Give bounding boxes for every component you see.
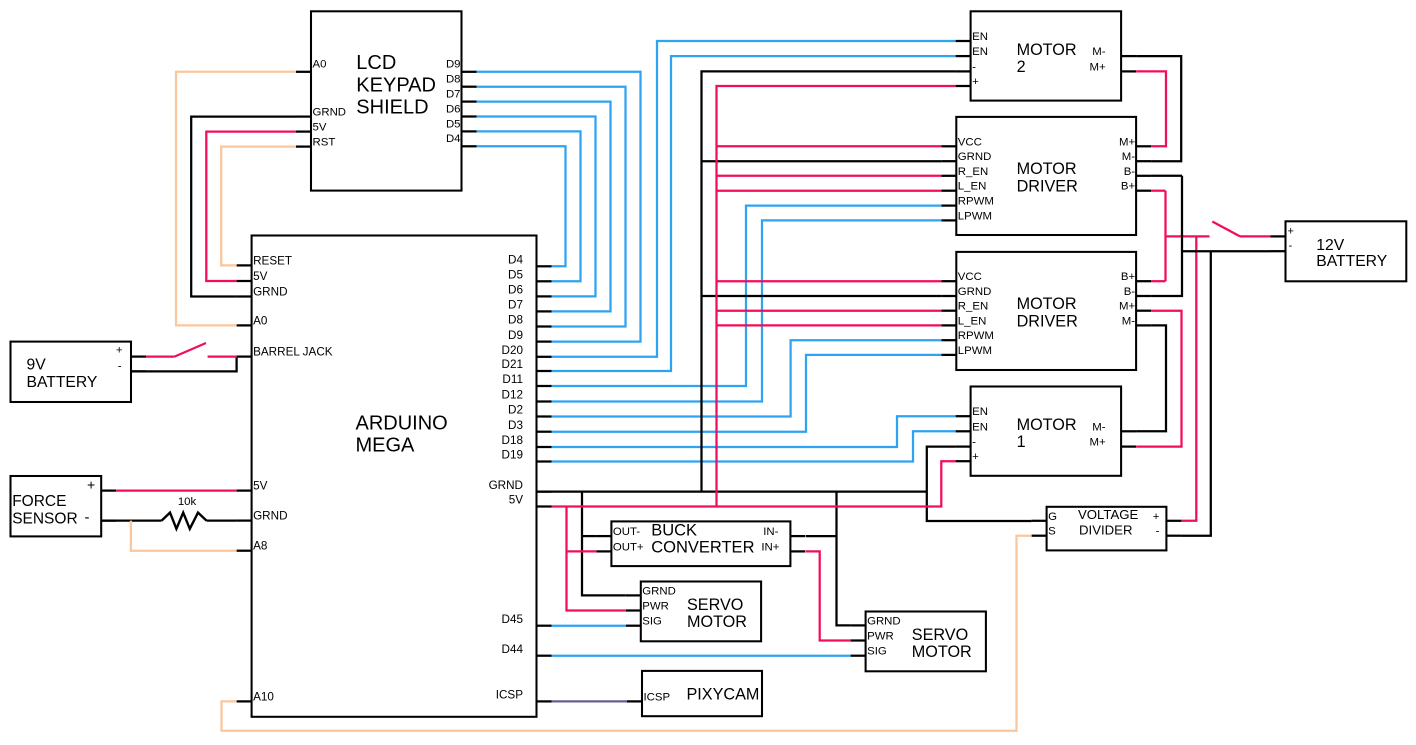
svg-text:GRND: GRND bbox=[958, 286, 992, 298]
svg-text:BUCK: BUCK bbox=[651, 522, 697, 540]
svg-text:+: + bbox=[972, 451, 979, 463]
svg-text:S: S bbox=[1048, 526, 1056, 538]
svg-text:L_EN: L_EN bbox=[958, 181, 987, 193]
svg-text:D9: D9 bbox=[508, 329, 523, 342]
svg-text:GRND: GRND bbox=[867, 615, 901, 627]
svg-text:M+: M+ bbox=[1119, 301, 1135, 313]
svg-text:+: + bbox=[116, 345, 123, 357]
svg-text:D4: D4 bbox=[446, 133, 461, 145]
svg-text:+: + bbox=[972, 76, 979, 88]
svg-text:B+: B+ bbox=[1121, 181, 1136, 193]
svg-text:MOTOR: MOTOR bbox=[1017, 160, 1077, 178]
svg-text:PWR: PWR bbox=[642, 601, 669, 613]
svg-text:-: - bbox=[972, 61, 976, 73]
svg-text:A8: A8 bbox=[253, 540, 267, 553]
svg-text:EN: EN bbox=[972, 31, 988, 43]
svg-text:9V: 9V bbox=[27, 356, 47, 373]
svg-text:D4: D4 bbox=[508, 254, 523, 267]
svg-text:RPWM: RPWM bbox=[958, 330, 994, 342]
svg-text:M-: M- bbox=[1122, 151, 1135, 163]
svg-text:IN+: IN+ bbox=[761, 541, 779, 553]
svg-text:MOTOR: MOTOR bbox=[912, 643, 972, 661]
svg-text:-: - bbox=[118, 361, 122, 373]
svg-text:DRIVER: DRIVER bbox=[1017, 178, 1078, 196]
svg-text:B-: B- bbox=[1124, 286, 1136, 298]
svg-text:D20: D20 bbox=[502, 344, 524, 357]
svg-text:M+: M+ bbox=[1119, 136, 1135, 148]
svg-text:M-: M- bbox=[1092, 46, 1105, 58]
svg-text:SHIELD: SHIELD bbox=[356, 97, 428, 119]
svg-text:PWR: PWR bbox=[867, 631, 894, 643]
svg-text:5V: 5V bbox=[253, 480, 268, 493]
svg-text:KEYPAD: KEYPAD bbox=[356, 74, 436, 96]
svg-text:A10: A10 bbox=[253, 690, 274, 703]
svg-text:SERVO: SERVO bbox=[687, 596, 743, 614]
svg-text:LPWM: LPWM bbox=[958, 345, 992, 357]
svg-text:DIVIDER: DIVIDER bbox=[1079, 523, 1133, 538]
svg-text:D44: D44 bbox=[502, 643, 524, 656]
svg-text:MEGA: MEGA bbox=[356, 434, 416, 456]
svg-text:D11: D11 bbox=[502, 373, 523, 386]
svg-text:D8: D8 bbox=[508, 314, 523, 327]
svg-text:CONVERTER: CONVERTER bbox=[651, 539, 754, 557]
svg-text:R_EN: R_EN bbox=[958, 166, 988, 178]
svg-text:-: - bbox=[1156, 526, 1160, 538]
svg-text:RPWM: RPWM bbox=[958, 196, 994, 208]
svg-text:D2: D2 bbox=[508, 404, 523, 417]
svg-text:5V: 5V bbox=[509, 494, 524, 507]
svg-text:RST: RST bbox=[313, 137, 336, 149]
svg-text:M+: M+ bbox=[1089, 61, 1105, 73]
svg-text:D5: D5 bbox=[446, 118, 461, 130]
svg-text:MOTOR: MOTOR bbox=[687, 613, 747, 631]
svg-text:EN: EN bbox=[972, 406, 988, 418]
svg-text:D8: D8 bbox=[446, 74, 461, 86]
svg-text:A0: A0 bbox=[253, 314, 268, 327]
svg-text:VCC: VCC bbox=[958, 136, 982, 148]
svg-text:D7: D7 bbox=[446, 89, 461, 101]
svg-text:10k: 10k bbox=[178, 496, 197, 508]
svg-text:GRND: GRND bbox=[958, 151, 992, 163]
svg-text:GRND: GRND bbox=[253, 510, 287, 523]
svg-text:D45: D45 bbox=[502, 613, 524, 626]
svg-text:PIXYCAM: PIXYCAM bbox=[687, 685, 760, 703]
svg-text:R_EN: R_EN bbox=[958, 301, 988, 313]
svg-text:D6: D6 bbox=[508, 284, 523, 297]
svg-text:M+: M+ bbox=[1089, 437, 1105, 449]
svg-text:MOTOR: MOTOR bbox=[1017, 416, 1077, 434]
svg-text:EN: EN bbox=[972, 421, 988, 433]
svg-text:-: - bbox=[85, 509, 90, 526]
svg-text:+: + bbox=[1153, 511, 1160, 523]
svg-text:GRND: GRND bbox=[313, 107, 347, 119]
svg-text:BATTERY: BATTERY bbox=[27, 374, 98, 391]
svg-text:OUT-: OUT- bbox=[613, 526, 640, 538]
svg-text:D6: D6 bbox=[446, 103, 461, 115]
svg-text:MOTOR: MOTOR bbox=[1017, 41, 1077, 59]
svg-text:+: + bbox=[87, 476, 95, 492]
svg-text:ICSP: ICSP bbox=[496, 689, 523, 702]
svg-text:VCC: VCC bbox=[958, 271, 982, 283]
svg-text:+: + bbox=[1288, 225, 1294, 237]
svg-text:DRIVER: DRIVER bbox=[1017, 313, 1078, 331]
svg-text:D3: D3 bbox=[508, 419, 523, 432]
svg-text:BARREL JACK: BARREL JACK bbox=[253, 346, 333, 359]
svg-text:BATTERY: BATTERY bbox=[1316, 253, 1387, 270]
svg-text:RESET: RESET bbox=[253, 254, 292, 267]
svg-text:G: G bbox=[1048, 511, 1057, 523]
svg-text:LPWM: LPWM bbox=[958, 210, 992, 222]
svg-text:M-: M- bbox=[1092, 421, 1105, 433]
svg-text:2: 2 bbox=[1017, 58, 1026, 76]
svg-text:B+: B+ bbox=[1121, 271, 1136, 283]
svg-text:D18: D18 bbox=[502, 434, 523, 447]
svg-text:MOTOR: MOTOR bbox=[1017, 295, 1077, 313]
svg-text:D7: D7 bbox=[508, 299, 523, 312]
svg-text:5V: 5V bbox=[313, 122, 327, 134]
svg-text:FORCE: FORCE bbox=[12, 493, 66, 510]
svg-text:1: 1 bbox=[1017, 433, 1026, 451]
svg-text:GRND: GRND bbox=[642, 585, 676, 597]
svg-text:D12: D12 bbox=[502, 389, 523, 402]
svg-text:D21: D21 bbox=[502, 358, 523, 371]
svg-text:-: - bbox=[972, 437, 976, 449]
svg-text:D9: D9 bbox=[446, 59, 461, 71]
svg-text:EN: EN bbox=[972, 46, 988, 58]
svg-text:A0: A0 bbox=[313, 58, 327, 70]
svg-text:12V: 12V bbox=[1316, 237, 1344, 254]
svg-text:M-: M- bbox=[1122, 315, 1135, 327]
svg-text:D19: D19 bbox=[502, 449, 523, 462]
svg-text:D5: D5 bbox=[508, 269, 523, 282]
svg-text:B-: B- bbox=[1124, 166, 1136, 178]
svg-text:SIG: SIG bbox=[642, 616, 662, 628]
svg-text:IN-: IN- bbox=[763, 526, 778, 538]
svg-text:SIG: SIG bbox=[867, 646, 887, 658]
svg-text:ARDUINO: ARDUINO bbox=[356, 413, 448, 435]
svg-text:SENSOR: SENSOR bbox=[12, 511, 77, 528]
svg-text:GRND: GRND bbox=[253, 286, 287, 299]
svg-text:OUT+: OUT+ bbox=[613, 541, 644, 553]
svg-text:5V: 5V bbox=[253, 270, 268, 283]
svg-text:L_EN: L_EN bbox=[958, 315, 987, 327]
svg-text:GRND: GRND bbox=[489, 479, 523, 492]
svg-text:VOLTAGE: VOLTAGE bbox=[1078, 507, 1139, 522]
svg-text:ICSP: ICSP bbox=[644, 691, 671, 703]
svg-text:LCD: LCD bbox=[356, 52, 396, 74]
svg-text:-: - bbox=[1289, 240, 1293, 252]
svg-text:SERVO: SERVO bbox=[912, 626, 968, 644]
